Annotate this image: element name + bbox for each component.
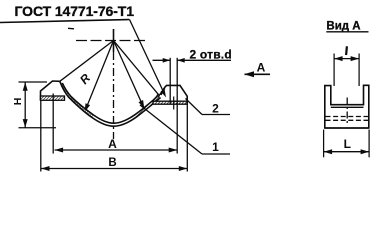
svg-text:2: 2 <box>212 102 219 116</box>
dimension l extension lines <box>333 54 335 87</box>
strap outer arc line <box>60 81 161 126</box>
dimension A <box>55 149 178 151</box>
weld leader line <box>130 20 165 95</box>
channel body outline <box>325 85 369 128</box>
right hole center line <box>173 97 175 110</box>
dimension B extension lines <box>40 101 42 172</box>
dimension H <box>19 81 48 83</box>
weld leader arrowhead <box>161 89 166 97</box>
position leader 1 <box>140 105 202 154</box>
vertical center line (dash-dot) <box>113 29 115 52</box>
fan ray F3 with arrow <box>114 41 145 109</box>
svg-text:А: А <box>257 61 266 75</box>
strap inner arc line <box>62 83 158 123</box>
dimension 2 otv.d <box>153 59 171 61</box>
right clamp block outline <box>161 85 187 104</box>
left flange edge <box>41 81 60 101</box>
left hole center line <box>52 94 54 154</box>
dimension L <box>324 151 370 153</box>
view A title underline <box>326 31 368 33</box>
channel bottom line <box>325 127 369 129</box>
channel floor second line <box>331 106 364 108</box>
hole edge line left <box>169 58 171 104</box>
horizontal center line (dash-dot) of pipe axis <box>76 40 147 42</box>
position leader 2 <box>186 99 203 115</box>
hidden line 2 <box>326 119 369 121</box>
dimension L extension lines <box>323 130 325 158</box>
radius line R with arrow <box>85 41 114 113</box>
left pad plate (hatched section) <box>41 96 65 100</box>
saddle strap band right hatched section <box>135 95 161 118</box>
svg-text:L: L <box>344 137 351 151</box>
svg-text:В: В <box>108 157 116 169</box>
view A center line <box>346 98 348 126</box>
svg-text:ГОСТ 14771-76-Т1: ГОСТ 14771-76-Т1 <box>15 3 135 19</box>
svg-text:Вид А: Вид А <box>326 21 360 33</box>
right flange pad plate (hatched section) <box>153 101 187 104</box>
svg-text:А: А <box>108 137 117 151</box>
stray scan dash <box>68 27 74 30</box>
dimension B <box>41 168 187 170</box>
fan ray F4 to strap end <box>114 41 160 96</box>
svg-text:H: H <box>12 98 24 106</box>
dimension l <box>334 58 359 60</box>
view direction arrow A <box>245 73 271 75</box>
fan ray F1 from center to arc start <box>60 41 114 82</box>
right clamp block inner curve <box>158 89 165 98</box>
svg-text:R: R <box>77 71 93 87</box>
weld callout shelf line <box>0 20 130 23</box>
hole edge line right / A extension <box>176 58 178 154</box>
svg-text:2 отв.d: 2 отв.d <box>190 47 232 61</box>
hidden line 1 <box>326 116 369 118</box>
saddle strap band left hatched section <box>60 81 94 117</box>
svg-text:1: 1 <box>212 140 219 154</box>
